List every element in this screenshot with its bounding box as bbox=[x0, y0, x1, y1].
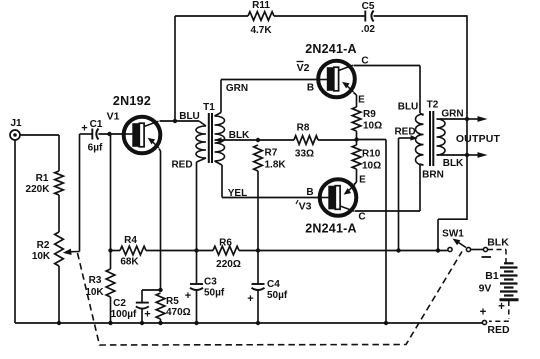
label BLU T2 bbox=[398, 102, 419, 113]
label C4 bbox=[267, 279, 280, 290]
label minus battery bbox=[482, 256, 492, 258]
node V1 base junction bbox=[107, 132, 111, 136]
svg-text:GRN: GRN bbox=[226, 83, 248, 94]
wire V1 collector to T1 primary bbox=[160, 120, 200, 122]
wire V3 collector to T2 BRN bbox=[355, 164, 420, 211]
wire R10 top lead bbox=[356, 140, 358, 146]
label C1 bbox=[90, 119, 103, 130]
label B V2 bbox=[307, 83, 314, 94]
switch SW1 terminal right bbox=[483, 247, 487, 251]
node C2 at ground rail bbox=[140, 321, 144, 325]
node R5 at ground rail bbox=[158, 321, 162, 325]
label R4 bbox=[124, 235, 137, 246]
svg-text:B: B bbox=[306, 187, 313, 198]
wire R2 wiper arm bbox=[63, 249, 80, 255]
wire T1 secondary bottom YEL vertical bbox=[221, 165, 223, 198]
label GRN T2 bbox=[441, 109, 463, 120]
label BLK battery bbox=[487, 237, 509, 249]
label V3 bbox=[296, 200, 312, 213]
svg-text:220Ω: 220Ω bbox=[216, 259, 241, 270]
label YEL bbox=[228, 188, 247, 199]
label V2 bbox=[297, 62, 310, 75]
svg-text:470Ω: 470Ω bbox=[166, 307, 191, 318]
label J1 bbox=[10, 118, 22, 129]
label 10K R2 bbox=[32, 251, 51, 262]
node C3 at ground rail bbox=[194, 321, 198, 325]
label R11 bbox=[252, 0, 270, 11]
label 6µf bbox=[88, 143, 103, 154]
svg-text:R10: R10 bbox=[362, 149, 381, 160]
label 2N192 bbox=[113, 94, 151, 108]
svg-text:T1: T1 bbox=[203, 102, 215, 113]
resistor R11 bbox=[248, 12, 274, 21]
connector J1 bbox=[10, 130, 20, 140]
wire R9 bottom lead bbox=[356, 131, 358, 140]
wire T2 secondary bottom BLK bbox=[440, 154, 467, 156]
output arrow BLK bbox=[467, 152, 488, 158]
label + battery inner bbox=[498, 301, 505, 313]
label + C3 bbox=[185, 290, 191, 302]
svg-text:33Ω: 33Ω bbox=[295, 149, 314, 160]
svg-text:R11: R11 bbox=[252, 0, 270, 11]
svg-text:4.7K: 4.7K bbox=[250, 25, 272, 36]
wire left vertical R11 to V1 collector bbox=[174, 16, 176, 121]
wire ground rail bbox=[15, 322, 482, 324]
capacitor C1 bbox=[92, 129, 98, 140]
svg-text:100µf: 100µf bbox=[111, 309, 137, 320]
resistor R2 potentiometer bbox=[55, 232, 64, 266]
label R7 bbox=[265, 148, 278, 159]
wire R7 bottom to B- line bbox=[257, 171, 259, 251]
wire switch link bbox=[471, 249, 483, 251]
wire base column down to B- line bbox=[110, 134, 112, 251]
label + battery outer bbox=[480, 307, 487, 319]
wire C1 left lead bbox=[80, 133, 93, 135]
svg-text:BLU: BLU bbox=[398, 102, 419, 113]
wire RED battery lead dashed bbox=[489, 301, 509, 321]
label 220Ω bbox=[216, 259, 241, 270]
label 10Ω R9 bbox=[363, 121, 382, 132]
transistor V1 2N192 bbox=[124, 117, 161, 154]
output arrow GRN bbox=[467, 116, 488, 122]
label 68K bbox=[120, 257, 139, 268]
svg-text:9V: 9V bbox=[479, 283, 492, 295]
wire C4 bottom lead bbox=[257, 290, 259, 323]
label R3 bbox=[89, 275, 102, 286]
label T2 bbox=[427, 100, 439, 111]
label R9 bbox=[363, 109, 376, 120]
dashed linkage R2 to SW1 bbox=[78, 252, 463, 346]
svg-text:BRN: BRN bbox=[422, 170, 444, 181]
node R7 C4 at B- line bbox=[256, 248, 260, 252]
svg-text:.02: .02 bbox=[361, 24, 375, 35]
svg-text:R8: R8 bbox=[297, 123, 310, 134]
wire B- line bbox=[111, 250, 448, 252]
svg-text:C4: C4 bbox=[267, 279, 280, 290]
wire BLK battery lead dashed bbox=[488, 250, 506, 264]
node C4 at ground rail bbox=[256, 321, 260, 325]
label BLU T1 bbox=[179, 111, 200, 122]
wire R10 to V3 emitter bbox=[354, 169, 357, 185]
wire R8 to emitter junction bbox=[318, 139, 357, 141]
wire T1 primary bottom RED lead bbox=[196, 162, 198, 251]
wire C4 top lead bbox=[257, 251, 259, 285]
resistor R7 bbox=[254, 145, 263, 171]
wire T2 center tap RED bbox=[399, 135, 418, 141]
transformer T2 secondary coil bbox=[437, 119, 446, 155]
wire J1 ground vertical bbox=[14, 140, 16, 323]
svg-text:V1: V1 bbox=[107, 111, 120, 123]
svg-text:2N192: 2N192 bbox=[113, 94, 151, 108]
wire C1 to V1 base bbox=[98, 133, 123, 135]
svg-text:T2: T2 bbox=[427, 100, 439, 111]
label 470Ω bbox=[166, 307, 191, 318]
capacitor C4 bbox=[252, 284, 265, 290]
label C2 bbox=[113, 298, 126, 309]
label BLK T1 bbox=[229, 130, 250, 141]
label 2N241-A bottom bbox=[305, 222, 356, 236]
svg-text:50µf: 50µf bbox=[204, 288, 225, 299]
node feedback at B- line bbox=[436, 248, 440, 252]
svg-text:R1: R1 bbox=[36, 173, 49, 184]
label R6 bbox=[219, 238, 232, 249]
transistor V2 2N241-A bbox=[318, 61, 355, 98]
node R7 junction bbox=[256, 138, 260, 142]
svg-text:10Ω: 10Ω bbox=[363, 121, 382, 132]
label 2N241-A top bbox=[305, 42, 356, 56]
svg-text:6µf: 6µf bbox=[88, 143, 103, 154]
svg-text:R6: R6 bbox=[219, 238, 232, 249]
label C5 bbox=[362, 1, 375, 12]
wire C2 bottom lead bbox=[141, 308, 143, 323]
wire emitter junction to ground rail bbox=[357, 140, 387, 324]
node R2 at ground rail bbox=[57, 321, 61, 325]
svg-text:10Ω: 10Ω bbox=[362, 161, 381, 172]
svg-text:+: + bbox=[81, 123, 87, 135]
label T1 bbox=[203, 102, 215, 113]
label R5 bbox=[166, 296, 179, 307]
svg-text:V2: V2 bbox=[297, 62, 310, 74]
svg-text:50µf: 50µf bbox=[267, 290, 288, 301]
svg-text:2N241-A: 2N241-A bbox=[305, 222, 356, 236]
wire V2 collector to T2 BLU bbox=[354, 66, 421, 114]
svg-text:C1: C1 bbox=[90, 119, 103, 130]
capacitor C5 bbox=[365, 11, 373, 22]
resistor R8 bbox=[294, 136, 318, 145]
svg-text:68K: 68K bbox=[120, 257, 139, 268]
label C V3 bbox=[358, 212, 365, 223]
svg-text:RED: RED bbox=[487, 324, 510, 336]
wire YEL to V3 base bbox=[222, 197, 321, 199]
node BLK output junction bbox=[465, 153, 469, 157]
capacitor C3 bbox=[190, 284, 203, 290]
transformer T2 primary coil bbox=[415, 113, 423, 165]
node RED tap at B- line bbox=[396, 248, 400, 252]
node R9 R10 junction bbox=[354, 137, 358, 141]
wire C3 bottom lead bbox=[196, 290, 198, 323]
wire C5 to top-right corner bbox=[374, 15, 467, 17]
label + C2 bbox=[144, 309, 150, 321]
transformer T1 secondary coil bbox=[215, 113, 225, 166]
node R3 at ground rail bbox=[108, 321, 112, 325]
label BRN bbox=[422, 170, 444, 181]
svg-text:R2: R2 bbox=[37, 240, 50, 251]
resistor R5 bbox=[156, 293, 165, 319]
switch SW1 terminal middle bbox=[466, 247, 470, 251]
wire C2 stub bbox=[142, 290, 161, 303]
label 33Ω bbox=[295, 149, 314, 160]
svg-text:J1: J1 bbox=[10, 118, 22, 129]
label GRN T1 bbox=[226, 83, 248, 94]
label RED T1 bbox=[171, 160, 192, 171]
label C3 bbox=[204, 277, 217, 288]
resistor R4 bbox=[120, 246, 146, 255]
svg-text:+: + bbox=[247, 293, 253, 305]
svg-text:220K: 220K bbox=[26, 184, 51, 195]
svg-text:E: E bbox=[358, 95, 365, 106]
label RED T2 bbox=[394, 127, 415, 138]
label BLK T2 bbox=[443, 158, 464, 169]
wire V1 emitter lead bbox=[159, 149, 161, 290]
svg-text:RED: RED bbox=[171, 160, 192, 171]
resistor R9 bbox=[352, 107, 361, 131]
label + C4 bbox=[247, 293, 253, 305]
label R8 bbox=[297, 123, 310, 134]
svg-text:E: E bbox=[359, 175, 366, 186]
svg-text:2N241-A: 2N241-A bbox=[305, 42, 356, 56]
label V1 bbox=[107, 111, 120, 123]
label E V3 bbox=[359, 175, 366, 186]
resistor R3 bbox=[106, 269, 115, 297]
svg-text:R4: R4 bbox=[124, 235, 137, 246]
wire R11 to C5 bbox=[274, 15, 365, 17]
svg-text:RED: RED bbox=[394, 127, 415, 138]
label 10K R3 bbox=[85, 287, 104, 298]
label B1 bbox=[485, 270, 499, 282]
node GRN output junction bbox=[465, 117, 469, 121]
label 50µf C4 bbox=[267, 290, 288, 301]
battery B1 bbox=[500, 263, 519, 300]
resistor R1 bbox=[55, 171, 64, 195]
wire wiper to C1 vertical bbox=[79, 134, 81, 252]
svg-text:C2: C2 bbox=[113, 298, 126, 309]
transformer T1 core bbox=[209, 113, 212, 163]
svg-text:R9: R9 bbox=[363, 109, 376, 120]
wire R3 bottom lead bbox=[110, 297, 112, 323]
node R11 junction at V1 collector bbox=[173, 119, 177, 123]
wire RED tap vertical to B- line bbox=[398, 138, 400, 251]
svg-text:B: B bbox=[307, 83, 314, 94]
label 50µf C3 bbox=[204, 288, 225, 299]
svg-text:10K: 10K bbox=[32, 251, 51, 262]
wire T1 secondary top GRN vertical bbox=[220, 80, 222, 113]
svg-text:B1: B1 bbox=[485, 270, 499, 282]
svg-text:R7: R7 bbox=[265, 148, 278, 159]
node emitter R5 C2 junction bbox=[158, 288, 162, 292]
wire T2 secondary top GRN bbox=[440, 118, 467, 120]
svg-text:SW1: SW1 bbox=[442, 229, 464, 240]
label SW1 bbox=[442, 229, 464, 240]
svg-text:+: + bbox=[185, 290, 191, 302]
wire J1 to R1 column bbox=[20, 134, 59, 136]
wire right feedback vertical bbox=[438, 15, 467, 250]
svg-text:GRN: GRN bbox=[441, 109, 463, 120]
node R4 junction bbox=[108, 248, 112, 252]
label C V2 bbox=[361, 56, 368, 67]
transformer T2 core bbox=[430, 111, 433, 166]
label 10Ω R10 bbox=[362, 161, 381, 172]
svg-text:BLK: BLK bbox=[229, 130, 250, 141]
svg-text:R3: R3 bbox=[89, 275, 102, 286]
label + C1 bbox=[81, 123, 87, 135]
svg-text:+: + bbox=[480, 307, 487, 319]
node T1 RED at B- line bbox=[194, 248, 198, 252]
svg-text:+: + bbox=[144, 309, 150, 321]
svg-text:R5: R5 bbox=[166, 296, 179, 307]
wire R2 bottom lead bbox=[58, 266, 60, 323]
switch SW1 terminal left bbox=[448, 247, 452, 251]
svg-text:BLK: BLK bbox=[487, 237, 509, 249]
switch SW1 arm bbox=[453, 239, 467, 248]
label RED battery bbox=[487, 324, 510, 336]
svg-text:C: C bbox=[358, 212, 365, 223]
svg-text:BLK: BLK bbox=[443, 158, 464, 169]
label R10 bbox=[362, 149, 381, 160]
svg-text:YEL: YEL bbox=[228, 188, 247, 199]
resistor R6 bbox=[213, 246, 239, 255]
label 1.8K bbox=[265, 160, 287, 171]
svg-text:BLU: BLU bbox=[179, 111, 200, 122]
label 220K bbox=[26, 184, 51, 195]
label E V2 bbox=[358, 95, 365, 106]
svg-text:C5: C5 bbox=[362, 1, 375, 12]
transformer T1 primary coil bbox=[196, 121, 206, 162]
wire T1 center tap BLK bbox=[215, 137, 295, 143]
label 9V bbox=[479, 283, 492, 295]
svg-text:1.8K: 1.8K bbox=[265, 160, 287, 171]
node emitter return at ground rail bbox=[384, 321, 388, 325]
svg-text:C3: C3 bbox=[204, 277, 217, 288]
capacitor C2 bbox=[136, 303, 149, 309]
label 4.7K bbox=[250, 25, 272, 36]
label B V3 bbox=[306, 187, 313, 198]
wire R1 top lead bbox=[58, 135, 60, 171]
wire top feedback line left segment bbox=[175, 15, 248, 17]
svg-text:+: + bbox=[498, 301, 505, 313]
transistor V3 2N241-A bbox=[320, 179, 357, 216]
label OUTPUT bbox=[456, 133, 501, 145]
svg-text:OUTPUT: OUTPUT bbox=[456, 133, 501, 145]
wire R5 bottom lead bbox=[160, 319, 162, 323]
wire V2 emitter lead bbox=[354, 93, 357, 108]
label R1 bbox=[36, 173, 49, 184]
label 100µf bbox=[111, 309, 137, 320]
battery connector RED terminal bbox=[482, 320, 486, 324]
wire R1-R2 link bbox=[58, 195, 60, 232]
label R2 bbox=[37, 240, 50, 251]
resistor R10 bbox=[352, 145, 361, 169]
wire GRN to V2 base bbox=[221, 79, 320, 81]
label .02 bbox=[361, 24, 375, 35]
wire R3 top lead bbox=[110, 251, 112, 270]
svg-text:V3: V3 bbox=[299, 201, 312, 213]
wire C3 top lead bbox=[196, 251, 198, 285]
